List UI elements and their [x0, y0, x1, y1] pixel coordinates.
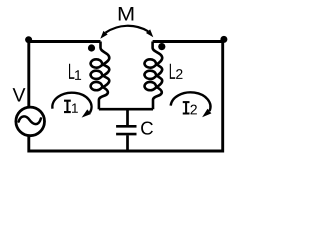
capacitor C bottom plate [116, 133, 136, 136]
M arrowhead left [100, 31, 107, 39]
node junction dot top-left [25, 36, 32, 43]
label I1 sub1 [72, 104, 78, 113]
label I2 sub2 [191, 105, 197, 115]
I2 arrowhead [202, 109, 211, 117]
inductor L2 coil [145, 42, 163, 110]
inductor L1 coil [91, 42, 110, 110]
mutual inductance arc M [106, 26, 149, 33]
label M [119, 7, 134, 20]
label L2 sub2 [176, 69, 182, 79]
current loop I1 arrow arc [52, 93, 91, 113]
label V [13, 88, 26, 101]
label I1 I [64, 100, 70, 113]
wire outer loop [29, 42, 223, 152]
voltage source V circle [16, 107, 45, 136]
node junction dot top-right [220, 36, 227, 43]
polarity dot L2 [158, 43, 165, 50]
label L1 sub1 [75, 70, 81, 80]
wire link L1-L2 bottoms [99, 108, 153, 111]
M arrowhead right [146, 29, 153, 37]
capacitor C bottom lead [126, 135, 129, 151]
polarity dot L1 [88, 44, 95, 51]
capacitor C top lead [126, 109, 129, 125]
current loop I2 arrow arc [171, 92, 211, 111]
I1 arrowhead [82, 109, 91, 117]
capacitor C top plate [116, 125, 136, 128]
label L1 L [69, 64, 74, 79]
label C [141, 122, 153, 135]
label I2 I [183, 101, 189, 114]
label L2 L [170, 64, 175, 79]
voltage source sine wave [19, 116, 41, 124]
